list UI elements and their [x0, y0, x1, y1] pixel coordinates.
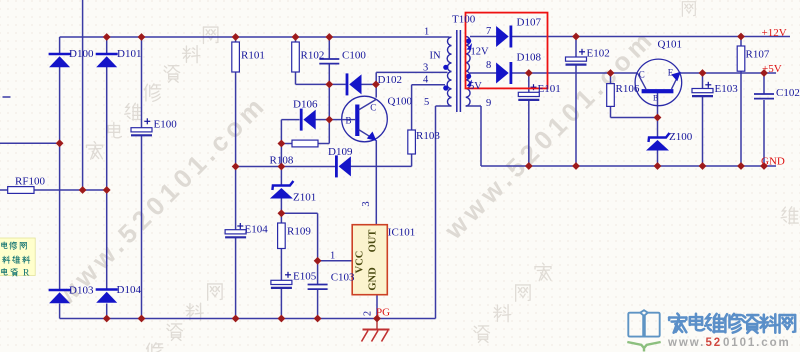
watermark chinese top edge	[682, 2, 695, 17]
junction node (528.8,166)	[525, 162, 533, 170]
svg-text:3: 3	[361, 201, 372, 206]
wire R102 column	[295, 37, 297, 84]
wire D108 output to Q101 collector	[512, 72, 638, 74]
wire RF100 output	[34, 189, 107, 191]
svg-text:D100: D100	[69, 48, 94, 60]
wire C100 column	[328, 37, 330, 84]
svg-text:R106: R106	[616, 83, 640, 95]
wire E103 column	[702, 73, 704, 166]
svg-text:E100: E100	[154, 119, 178, 131]
wire R108 left lead	[281, 143, 292, 145]
transistor Q100	[342, 96, 388, 142]
diode D106	[301, 109, 316, 131]
transformer T100 secondary winding	[466, 37, 470, 107]
highlight box around D107/D108	[466, 13, 548, 89]
wire node to Q100 collector	[375, 84, 377, 97]
diode D107	[496, 26, 511, 48]
wire R101/E104 column	[235, 37, 237, 319]
svg-text:D102: D102	[378, 74, 402, 86]
wire C102 column	[763, 73, 765, 166]
svg-text:5V: 5V	[469, 81, 482, 92]
svg-text:GND: GND	[368, 267, 379, 291]
op-amp IC101 regulator	[352, 225, 387, 295]
wire R106 column and base link	[611, 73, 658, 118]
junction node (281.4,318.5)	[278, 315, 286, 323]
junction node (375.9,84.4)	[372, 81, 380, 89]
wire D100/D103 column	[59, 37, 61, 319]
junction node (657.5,117.5)	[654, 114, 662, 122]
junction node (106.7,318.5)	[103, 315, 111, 323]
transformer primary phase dot pin3	[443, 65, 448, 70]
junction node (741,36.5)	[737, 33, 745, 41]
svg-text:R: R	[23, 268, 30, 278]
svg-text:RF100: RF100	[15, 176, 45, 188]
resistor R109	[278, 223, 286, 249]
junction node (106.7,190)	[103, 186, 111, 194]
svg-text:0101.com: 0101.com	[723, 337, 791, 349]
svg-text:PG: PG	[376, 307, 390, 319]
wire D109 anode to R103	[349, 165, 412, 167]
watermark chinese diagonal bottom-center	[474, 263, 551, 342]
transformer primary phase dot pin4	[443, 85, 448, 90]
logo url www.520101.com	[667, 337, 791, 349]
diode D101	[96, 54, 118, 67]
svg-text:4: 4	[423, 75, 429, 86]
transformer T100 primary winding	[447, 37, 451, 106]
junction node (82.6,190)	[79, 186, 87, 194]
svg-text:D106: D106	[293, 99, 318, 111]
capacitor E101	[518, 92, 539, 100]
svg-text:R103: R103	[416, 130, 440, 142]
wire R103 bottom lead	[411, 154, 413, 166]
svg-text:B: B	[346, 116, 352, 126]
wire +12V rail	[512, 36, 790, 38]
resistor R103	[408, 130, 416, 154]
wire pin2 stub to earth symbol	[376, 319, 378, 330]
transistor Q101	[635, 59, 682, 106]
svg-text:C: C	[370, 103, 376, 113]
junction node (281.4,143.5)	[278, 140, 286, 148]
wire Q101 base to Z100	[657, 93, 659, 137]
wire R107 column (+12V bleeder)	[740, 37, 742, 167]
junction node (702.5,166)	[699, 162, 707, 170]
svg-text:E104: E104	[245, 224, 269, 236]
note annotation box	[0, 238, 35, 278]
svg-text:C100: C100	[342, 50, 366, 62]
svg-text:IC101: IC101	[388, 227, 416, 239]
svg-text:52: 52	[706, 337, 723, 349]
svg-text:2: 2	[363, 311, 374, 316]
wire AC input stub upper left	[3, 96, 11, 98]
svg-text:R101: R101	[241, 50, 265, 62]
wire feedback horizontal rail	[236, 166, 336, 168]
junction node (528.8,73)	[525, 69, 533, 77]
transformer secondary phase dot 5V	[466, 74, 471, 79]
junction node (235.6,318.5)	[232, 315, 240, 323]
svg-text:R109: R109	[287, 226, 311, 238]
wire AC input to bridge midpoint	[0, 142, 60, 144]
E100 polarity mark	[144, 118, 150, 124]
E101 polarity mark	[531, 84, 537, 90]
wire secondary bottom pin 9 to ground rail	[466, 106, 481, 166]
svg-text:E102: E102	[587, 47, 610, 59]
junction node (317.6,260.8)	[314, 257, 322, 265]
junction node (329.3,119.6)	[325, 116, 333, 124]
wire D102 cathode lead	[361, 83, 376, 85]
wire C100 node to Q100 base node	[328, 84, 330, 119]
junction node (764,166)	[760, 162, 768, 170]
resistor RF100	[8, 187, 34, 194]
transformer secondary phase dot 12V	[466, 38, 471, 43]
wire E102 column	[575, 37, 577, 167]
junction node (329.3,37)	[325, 33, 333, 41]
capacitor C102	[754, 94, 774, 99]
svg-text:www.: www.	[667, 337, 705, 349]
junction node (610.5,73)	[607, 69, 615, 77]
junction node (329.3,84.4)	[325, 81, 333, 89]
diode D104	[96, 290, 118, 303]
svg-text:C102: C102	[776, 87, 800, 99]
junction node (764,73)	[760, 69, 768, 77]
wire D106/R108 node down to feedback rail	[280, 144, 282, 167]
wire secondary pin 8 lead	[470, 72, 497, 74]
wire D101/D104 column	[106, 37, 108, 319]
svg-text:E105: E105	[293, 271, 317, 283]
capacitor C103	[308, 285, 328, 290]
wire RF100 left lead	[0, 189, 8, 191]
transformer core	[457, 30, 461, 112]
junction node (317.6,318.5)	[314, 315, 322, 323]
wire R109 to E105	[280, 249, 282, 281]
wire C103 column	[317, 261, 319, 319]
logo book icon	[627, 310, 660, 351]
capacitor C100	[319, 59, 339, 64]
svg-text:+12V: +12V	[762, 27, 787, 39]
wire Z101 top lead	[280, 167, 282, 185]
wire bottom rail (rectified -)	[60, 318, 436, 320]
junction node (657.5,166)	[654, 162, 662, 170]
capacitor E104	[225, 230, 246, 238]
svg-text:+5V: +5V	[762, 63, 782, 75]
wire R109 node jog to IC101 pin 1	[281, 213, 352, 260]
diode D109	[336, 155, 351, 177]
zener diode Z101	[270, 181, 294, 199]
wire +5V rail from Q101 emitter	[679, 72, 776, 74]
junction node (281.4,166.5)	[278, 163, 286, 171]
wire AC line from top edge	[82, 0, 84, 190]
E104 polarity mark	[237, 223, 243, 229]
junction node (141.5,318.5)	[138, 315, 146, 323]
resistor R106	[607, 84, 615, 107]
diode D100	[49, 54, 71, 67]
wire primary bottom to pin5 column	[436, 106, 452, 319]
diode D103	[49, 290, 71, 303]
svg-text:Q100: Q100	[388, 96, 413, 108]
wire E105 bottom lead	[280, 288, 282, 319]
svg-text:IN: IN	[430, 51, 441, 62]
diode D102	[347, 73, 362, 95]
junction node (576,36.5)	[572, 33, 580, 41]
resistor R101	[232, 42, 240, 72]
svg-text:Z100: Z100	[669, 131, 693, 143]
wire secondary pin 7 lead	[470, 36, 497, 38]
wire transformer pin 4 to R103	[412, 85, 445, 130]
svg-text:D104: D104	[117, 284, 142, 296]
wire E101 column	[528, 73, 530, 166]
logo text 家电维修资料网	[669, 314, 795, 333]
svg-text:Z101: Z101	[293, 192, 316, 204]
svg-text:B: B	[653, 94, 658, 103]
svg-text:3: 3	[423, 63, 428, 74]
resistor R107	[737, 46, 745, 71]
svg-text:9: 9	[486, 98, 491, 109]
svg-text:Q101: Q101	[658, 39, 682, 51]
svg-text:D109: D109	[328, 146, 353, 158]
junction node (235.6,37)	[232, 33, 240, 41]
wire D106 cathode lead	[281, 120, 299, 144]
svg-text:D107: D107	[517, 16, 542, 28]
wire top rail (rectified +)	[60, 36, 450, 38]
svg-text:R108: R108	[270, 155, 294, 167]
svg-text:E101: E101	[538, 83, 561, 95]
ground PG earth symbol	[362, 330, 390, 342]
junction node (295.5,37)	[292, 33, 300, 41]
E105 polarity mark	[285, 272, 291, 278]
diode D108	[496, 62, 511, 84]
svg-text:GND: GND	[761, 155, 785, 167]
junction node (377,318.5)	[373, 315, 381, 323]
capacitor E102	[566, 57, 587, 65]
svg-text:R102: R102	[301, 50, 325, 62]
junction node (702.5,73)	[699, 69, 707, 77]
capacitor E105	[271, 280, 292, 288]
junction node (576,166)	[572, 162, 580, 170]
junction node (106.7,37)	[103, 33, 111, 41]
wire E100 column	[141, 37, 143, 319]
watermark chinese right edge	[781, 187, 800, 224]
svg-text:8: 8	[486, 60, 491, 71]
wire D106 anode to base node	[314, 119, 330, 121]
resistor R102	[292, 42, 300, 72]
svg-text:C103: C103	[331, 272, 355, 284]
wire Q100 base lead	[329, 119, 342, 121]
capacitor E100	[131, 128, 152, 136]
svg-text:E103: E103	[715, 83, 739, 95]
wire secondary ground rail	[481, 165, 776, 167]
junction node (741,166)	[737, 162, 745, 170]
watermark chinese diagonal top-left	[87, 27, 218, 159]
wire Q100 emitter to IC101 pin 3	[375, 140, 377, 225]
svg-text:R107: R107	[746, 48, 770, 60]
wire IC101 pin 2 to power ground	[376, 295, 378, 319]
watermark chinese diagonal bottom-left	[147, 284, 223, 352]
svg-text:1: 1	[330, 250, 335, 261]
svg-text:T100: T100	[452, 14, 476, 26]
zener diode Z100	[646, 133, 670, 151]
wire R108 right lead up to base node	[318, 120, 329, 144]
svg-text:D101: D101	[117, 48, 141, 60]
capacitor E103	[692, 89, 713, 97]
svg-text:OUT: OUT	[368, 230, 379, 253]
svg-text:C: C	[639, 70, 645, 80]
wire node to transformer pin 3	[376, 72, 447, 84]
svg-text:1: 1	[424, 27, 429, 38]
transformer 12V tap arrow	[467, 43, 473, 50]
junction node (141.5,37)	[138, 33, 146, 41]
svg-text:12V: 12V	[471, 46, 490, 57]
E102 polarity mark	[579, 49, 585, 55]
junction node (281.4,213.3)	[278, 209, 286, 217]
svg-text:VCC: VCC	[355, 251, 366, 274]
wire snubber horizontal	[296, 83, 346, 85]
wire Z101 to R109 node	[280, 198, 282, 224]
junction node (59.6,143.3)	[56, 139, 64, 147]
svg-text:7: 7	[486, 26, 491, 37]
transformer 5V tap arrow	[467, 80, 473, 87]
svg-text:D103: D103	[69, 285, 94, 297]
svg-text:D108: D108	[517, 51, 542, 63]
svg-text:5: 5	[424, 97, 429, 108]
junction node (235.6,166.5)	[232, 163, 240, 171]
wire Z100 bottom lead	[657, 151, 659, 167]
resistor R108	[292, 140, 318, 147]
svg-text:E: E	[668, 68, 674, 78]
E103 polarity mark	[705, 82, 711, 88]
